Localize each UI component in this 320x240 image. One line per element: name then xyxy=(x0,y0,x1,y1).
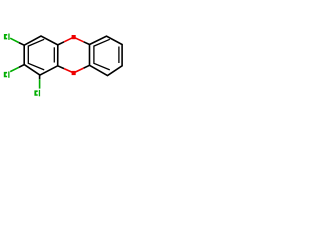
left ring inner double-bond contour xyxy=(28,39,44,70)
bond C-O upper left xyxy=(58,42,64,45)
bond O-C upper right xyxy=(74,37,84,42)
label Cl1 xyxy=(4,34,10,40)
bond C-O lower left xyxy=(58,66,64,69)
right ring inner double-bond contour xyxy=(94,39,110,70)
label Cl2 xyxy=(4,71,10,77)
bond O-C lower right xyxy=(74,68,84,73)
Cl3 bond xyxy=(39,75,41,79)
O atom top xyxy=(72,35,76,39)
label Cl3 xyxy=(34,90,40,96)
benzene ring right: outer xyxy=(90,36,123,75)
Cl2 bond xyxy=(10,67,19,71)
Cl1 bond xyxy=(10,38,19,42)
benzene ring left: outer xyxy=(24,36,58,75)
right ring right-edge inner line xyxy=(118,47,120,64)
O atom bottom xyxy=(72,71,76,75)
left ring fused-bond inner line xyxy=(53,47,55,62)
